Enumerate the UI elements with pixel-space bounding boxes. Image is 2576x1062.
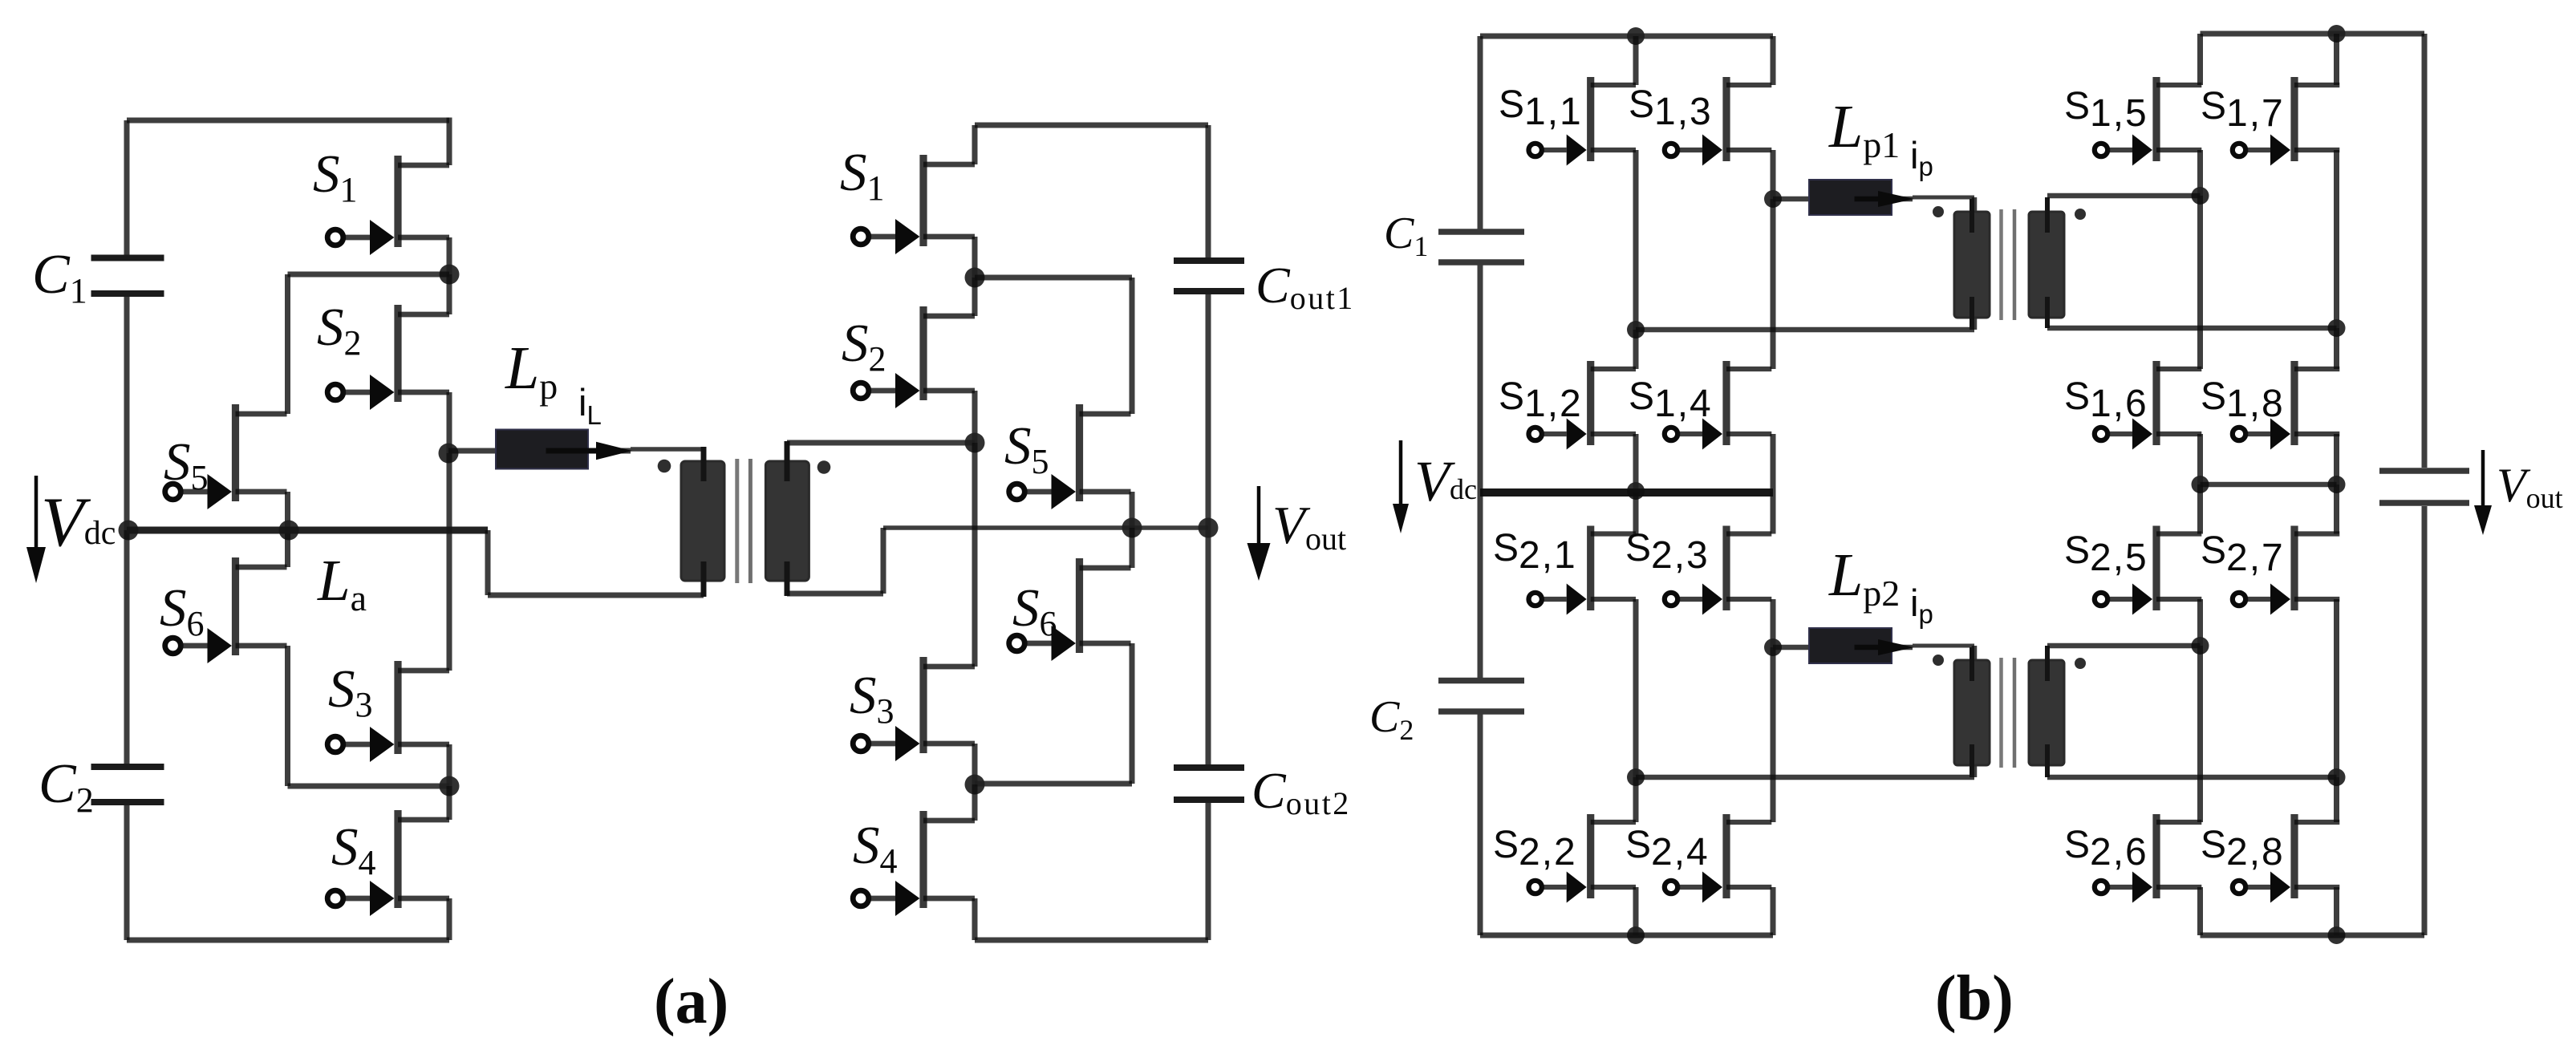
wire S2,4 drain riser	[1771, 647, 1776, 822]
wire S2,4 source to bottom rail	[1771, 887, 1776, 935]
transistor S1,7	[2233, 77, 2340, 166]
wire top rail (b3)	[2201, 31, 2425, 37]
wire top rail (b1)	[1480, 34, 1773, 39]
svg-text:S2,7: S2,7	[2201, 529, 2285, 579]
svg-text:S1,8: S1,8	[2201, 375, 2285, 425]
wire left rail upper	[124, 120, 130, 256]
node Vout-S5 junction	[1122, 518, 1142, 538]
wire Lp2 to T2 primary	[1913, 644, 1974, 648]
transistor S1,4	[1665, 361, 1772, 450]
transistor S2,4	[1665, 814, 1772, 903]
wire S1,1 source drop	[1633, 150, 1639, 330]
inductor Lp	[448, 430, 632, 469]
svg-text:S2,3: S2,3	[1625, 527, 1710, 577]
wire right rail middle	[1206, 294, 1211, 764]
node b3 right-bottom	[2328, 476, 2346, 493]
wire node A1 to S5 branch	[288, 272, 450, 278]
pin T1a primary bottom	[701, 561, 707, 597]
svg-text:ip: ip	[1910, 582, 1933, 629]
capacitor Cout (b)	[2379, 471, 2469, 503]
wire S1,8 source drop	[2334, 434, 2339, 484]
wire right rail upper	[1206, 125, 1211, 257]
capacitor Cout1	[1174, 261, 1244, 291]
svg-text:S1,7: S1,7	[2201, 85, 2285, 135]
transistor S6	[165, 557, 287, 663]
wire T1 primary top riser	[1972, 197, 1978, 217]
wire T1 secondary bottom lead	[2047, 326, 2337, 331]
svg-text:S3: S3	[328, 659, 373, 724]
node A2 junction (Lp node)	[439, 444, 459, 464]
wire S1,2 drain riser	[1633, 330, 1639, 369]
transistor S1	[327, 156, 449, 255]
wire secondary bottom lead	[787, 591, 883, 597]
wire T2 secondary top lead	[2047, 643, 2201, 649]
svg-text:(a): (a)	[654, 967, 728, 1037]
wire T2 primary bottom riser	[1972, 760, 1978, 777]
pin T2b secondary top	[2045, 646, 2050, 681]
transistor S2,6	[2095, 814, 2202, 903]
wire S1,7 source drop	[2334, 150, 2339, 328]
svg-text:S5: S5	[1004, 416, 1049, 481]
svg-text:Lp1: Lp1	[1828, 93, 1900, 165]
wire S2 source to node A2	[447, 392, 452, 453]
wire S2,3 drain riser	[1771, 492, 1776, 534]
svg-text:Vdc: Vdc	[1414, 449, 1477, 513]
wire S6 source drop (right)	[1130, 643, 1135, 784]
wire S5 drain riser (right)	[1130, 278, 1135, 414]
wire b2 mid wire	[1636, 775, 1974, 780]
svg-text:S5: S5	[164, 432, 209, 497]
wire left rail lower	[124, 530, 130, 765]
wire bottom rail (b-right)	[2201, 933, 2425, 938]
wire S6 drain riser	[285, 530, 290, 567]
wire bottom rail (a-right)	[975, 938, 1208, 943]
node sec2 top junction	[2192, 637, 2209, 655]
node top rail b1	[1627, 27, 1645, 45]
node sec1 top junction	[2192, 187, 2209, 205]
wire S3 source to node B3	[972, 744, 978, 784]
transistor S6 (output bridge)	[1009, 558, 1131, 661]
svg-text:C1: C1	[1384, 209, 1428, 262]
transistor S3 (output bridge)	[853, 657, 975, 761]
svg-text:ip: ip	[1910, 134, 1933, 181]
pin T1a secondary bottom	[785, 561, 790, 596]
node bottom rail b4	[2328, 926, 2346, 944]
svg-text:S2,4: S2,4	[1625, 824, 1710, 874]
wire S1,4 drain riser	[1771, 199, 1776, 369]
svg-text:S1,1: S1,1	[1499, 83, 1583, 133]
svg-text:S4: S4	[331, 817, 376, 882]
wire S3 source to node A3	[447, 744, 452, 786]
Vdc arrow (b)	[1393, 440, 1409, 533]
wire S2,7 source drop	[2334, 599, 2339, 777]
svg-text:S2,1: S2,1	[1493, 527, 1577, 577]
wire S5 source to Vout mid	[1130, 492, 1135, 528]
transistor S4 (output bridge)	[853, 811, 975, 916]
svg-text:S4: S4	[853, 816, 898, 881]
svg-text:S1,5: S1,5	[2064, 85, 2148, 135]
wire S2,5 drain riser	[2197, 484, 2203, 534]
wire Vdc mid rail (b)	[1480, 488, 1773, 497]
wire T1 primary bottom riser	[1972, 313, 1978, 330]
wire S2,8 source to bottom rail	[2334, 887, 2339, 935]
wire S1 drain riser (right)	[972, 125, 978, 164]
wire top rail (a-right)	[975, 123, 1208, 128]
wire S4 source to bottom rail	[447, 898, 452, 940]
wire S6 source to node B3	[975, 781, 1132, 787]
wire left rail (b) upper	[1478, 36, 1483, 229]
svg-text:(b): (b)	[1935, 963, 2014, 1034]
transformer T1 (a)	[658, 459, 831, 583]
wire S2,1 drain riser	[1633, 492, 1639, 534]
transistor S3	[327, 661, 449, 762]
wire b1 mid wire	[1636, 327, 1974, 333]
svg-text:Cout1: Cout1	[1256, 257, 1355, 316]
svg-text:Vdc: Vdc	[41, 484, 116, 561]
transistor S2,1	[1529, 526, 1637, 615]
node top rail b3	[2328, 25, 2346, 43]
node b3 left-bottom	[2192, 476, 2209, 493]
wire S3 drain riser (right)	[972, 443, 978, 667]
wire S6 source to node A3	[288, 784, 450, 789]
wire S2,2 source to bottom rail	[1633, 887, 1639, 935]
wire left rail (b) lower	[1478, 714, 1483, 935]
wire S1,3 source to Lp1 node	[1771, 150, 1776, 199]
pin T2b secondary bottom	[2045, 744, 2050, 777]
wire S6 source drop	[285, 646, 290, 786]
pin T1a secondary top	[785, 441, 790, 481]
svg-text:S6: S6	[160, 578, 205, 643]
node Lp1 junction	[1764, 190, 1782, 208]
wire S2 drain riser	[447, 274, 452, 314]
transistor S1,3	[1665, 77, 1772, 166]
wire S5 drain riser	[285, 274, 290, 414]
svg-text:S1,6: S1,6	[2064, 375, 2148, 425]
node Vout rail junction	[1199, 518, 1219, 538]
transistor S5	[165, 404, 287, 509]
node B2 junction	[965, 433, 985, 453]
wire S4 drain riser (right)	[972, 784, 978, 821]
wire bottom rail (b-left)	[1480, 933, 1773, 938]
Vout arrow (a)	[1247, 486, 1271, 581]
transformer T1 (b)	[1933, 206, 2086, 320]
svg-text:S2,5: S2,5	[2064, 529, 2148, 579]
transistor S1 (output bridge)	[853, 155, 975, 254]
wire S4 source to bottom rail (right)	[972, 898, 978, 940]
wire S2,6 source to bottom rail	[2197, 887, 2203, 935]
node b2 mid-left	[1627, 768, 1645, 786]
transformer T2 (b)	[1933, 655, 2086, 768]
wire T1 secondary top lead	[2047, 193, 2201, 199]
transistor S5 (output bridge)	[1009, 404, 1131, 509]
wire secondary bottom riser	[881, 528, 886, 594]
node sec1 bottom junction	[2328, 319, 2346, 337]
pin T1b primary bottom	[1970, 297, 1974, 330]
wire S2,1 source drop	[1633, 599, 1639, 777]
svg-text:S6: S6	[1012, 578, 1057, 643]
svg-text:S1: S1	[313, 144, 358, 209]
capacitor C2	[91, 767, 164, 802]
wire S1,6 source drop	[2197, 434, 2203, 484]
transistor S4	[327, 810, 449, 916]
node B3 junction	[965, 775, 985, 795]
wire left rail middle	[124, 295, 130, 530]
node B1 junction	[965, 268, 985, 288]
wire S2,5 source to sec2 node	[2197, 599, 2203, 646]
wire Lp1 to T1 primary	[1913, 196, 1974, 200]
transistor S1,2	[1529, 361, 1637, 450]
wire S1 source to node B1	[972, 237, 978, 278]
svg-text:Vout: Vout	[2497, 459, 2563, 514]
wire left rail bottom	[124, 804, 130, 940]
svg-text:S1,4: S1,4	[1629, 375, 1713, 425]
wire S4 drain riser	[447, 786, 452, 820]
transistor S2,3	[1665, 526, 1772, 615]
wire S1,1 drain riser	[1633, 36, 1639, 85]
node Vdc-S5 junction	[279, 521, 299, 541]
capacitor C1	[91, 258, 164, 294]
wire right rail (b) upper	[2422, 34, 2428, 468]
capacitor C2 (b)	[1438, 681, 1524, 712]
transistor S2	[327, 305, 449, 410]
node sec2 bottom junction	[2328, 768, 2346, 786]
svg-text:S1: S1	[840, 143, 885, 208]
wire S1,5 drain riser	[2197, 34, 2203, 85]
wire S1,4 source to Vdc rail	[1771, 434, 1776, 492]
wire S5 source to Vdc rail	[285, 492, 290, 530]
transistor S2,7	[2233, 526, 2340, 615]
wire S1,7 drain riser	[2334, 34, 2339, 85]
wire S1,3 drain riser	[1771, 36, 1776, 85]
transistor S1,6	[2095, 361, 2202, 450]
svg-text:iL: iL	[578, 381, 602, 430]
Vdc arrow (a)	[26, 476, 46, 583]
wire S2,7 drain riser	[2334, 484, 2339, 534]
svg-text:S3: S3	[850, 666, 895, 731]
wire S1,5 source to sec1 node	[2197, 150, 2203, 196]
wire S1,2 source to Vdc rail	[1633, 434, 1639, 492]
wire right rail (b) lower	[2422, 506, 2428, 935]
wire T2 primary top riser	[1972, 646, 1978, 665]
wire S2,3 source to Lp2 node	[1771, 599, 1776, 647]
pin T1b secondary bottom	[2045, 297, 2050, 328]
wire S2,8 drain riser	[2334, 777, 2339, 822]
wire Vdc mid rail (a)	[127, 527, 488, 534]
wire S1,6 drain riser	[2197, 196, 2203, 369]
svg-text:S2: S2	[317, 298, 362, 363]
svg-text:Cout2: Cout2	[1251, 762, 1351, 821]
svg-text:S2,6: S2,6	[2064, 824, 2148, 874]
transistor S1,5	[2095, 77, 2202, 166]
svg-text:S1,3: S1,3	[1629, 83, 1713, 133]
svg-text:C1: C1	[32, 244, 87, 310]
transistor S2,5	[2095, 526, 2202, 615]
svg-text:S2,2: S2,2	[1493, 824, 1577, 874]
node Vdc rail left junction	[119, 521, 139, 541]
svg-text:C2: C2	[1369, 692, 1414, 746]
wire S2 drain riser (right)	[972, 278, 978, 316]
svg-text:S2,8: S2,8	[2201, 824, 2285, 874]
capacitor C1 (b)	[1438, 232, 1524, 262]
node A3 junction	[440, 776, 460, 796]
transistor S1,8	[2233, 361, 2340, 450]
wire S2 source to node B2	[972, 391, 978, 443]
transistor S1,1	[1529, 77, 1637, 166]
transistor S2,2	[1529, 814, 1637, 903]
pin T1a primary top	[701, 447, 707, 481]
svg-text:La: La	[317, 548, 367, 618]
wire S1 source to node A1	[447, 237, 452, 274]
node b1 mid-left	[1627, 321, 1645, 338]
inductor Lp2	[1773, 628, 1914, 663]
node A1 junction	[440, 265, 460, 285]
wire node B1 to S5 branch	[975, 275, 1132, 281]
svg-text:C2: C2	[39, 753, 94, 820]
wire primary bottom lead	[488, 593, 704, 598]
wire S2,2 drain riser	[1633, 777, 1639, 822]
wire Vdc rail drop to primary	[485, 530, 491, 595]
svg-text:S1,2: S1,2	[1499, 375, 1583, 425]
wire secondary top lead	[787, 440, 975, 446]
inductor Lp1	[1773, 180, 1914, 215]
pin T2b primary bottom	[1970, 744, 1974, 777]
svg-text:S2: S2	[842, 314, 886, 379]
wire T2 secondary bottom lead	[2047, 775, 2337, 780]
Vout arrow (b)	[2474, 450, 2492, 535]
capacitor Cout2	[1174, 768, 1244, 800]
wire S3 drain riser	[447, 453, 452, 671]
wire S1 drain riser	[447, 118, 452, 166]
wire S2,6 drain riser	[2197, 646, 2203, 822]
pin T1b secondary top	[2045, 197, 2050, 233]
node Vdc rail b	[1627, 482, 1645, 500]
wire S6 drain riser (right)	[1130, 528, 1135, 568]
wire right rail bottom	[1206, 803, 1211, 940]
svg-text:Lp: Lp	[505, 334, 558, 407]
transistor S2,8	[2233, 814, 2340, 903]
node Lp2 junction	[1764, 638, 1782, 656]
wire left rail (b) middle	[1478, 265, 1483, 679]
wire Lp arrow to primary pin	[631, 447, 704, 452]
wire top rail (a-left)	[127, 118, 449, 124]
wire Vout mid wire (a)	[883, 525, 1208, 530]
svg-text:Vout: Vout	[1272, 496, 1346, 557]
svg-text:Lp2: Lp2	[1828, 541, 1900, 614]
wire bottom rail (a-left)	[127, 938, 449, 943]
wire b3 bottom link	[2201, 482, 2337, 488]
transistor S2 (output bridge)	[853, 306, 975, 408]
pin T2b primary top	[1970, 647, 1974, 681]
wire S1,8 drain riser	[2334, 328, 2339, 369]
node bottom rail b	[1627, 926, 1645, 944]
pin T1b primary top	[1970, 199, 1974, 233]
